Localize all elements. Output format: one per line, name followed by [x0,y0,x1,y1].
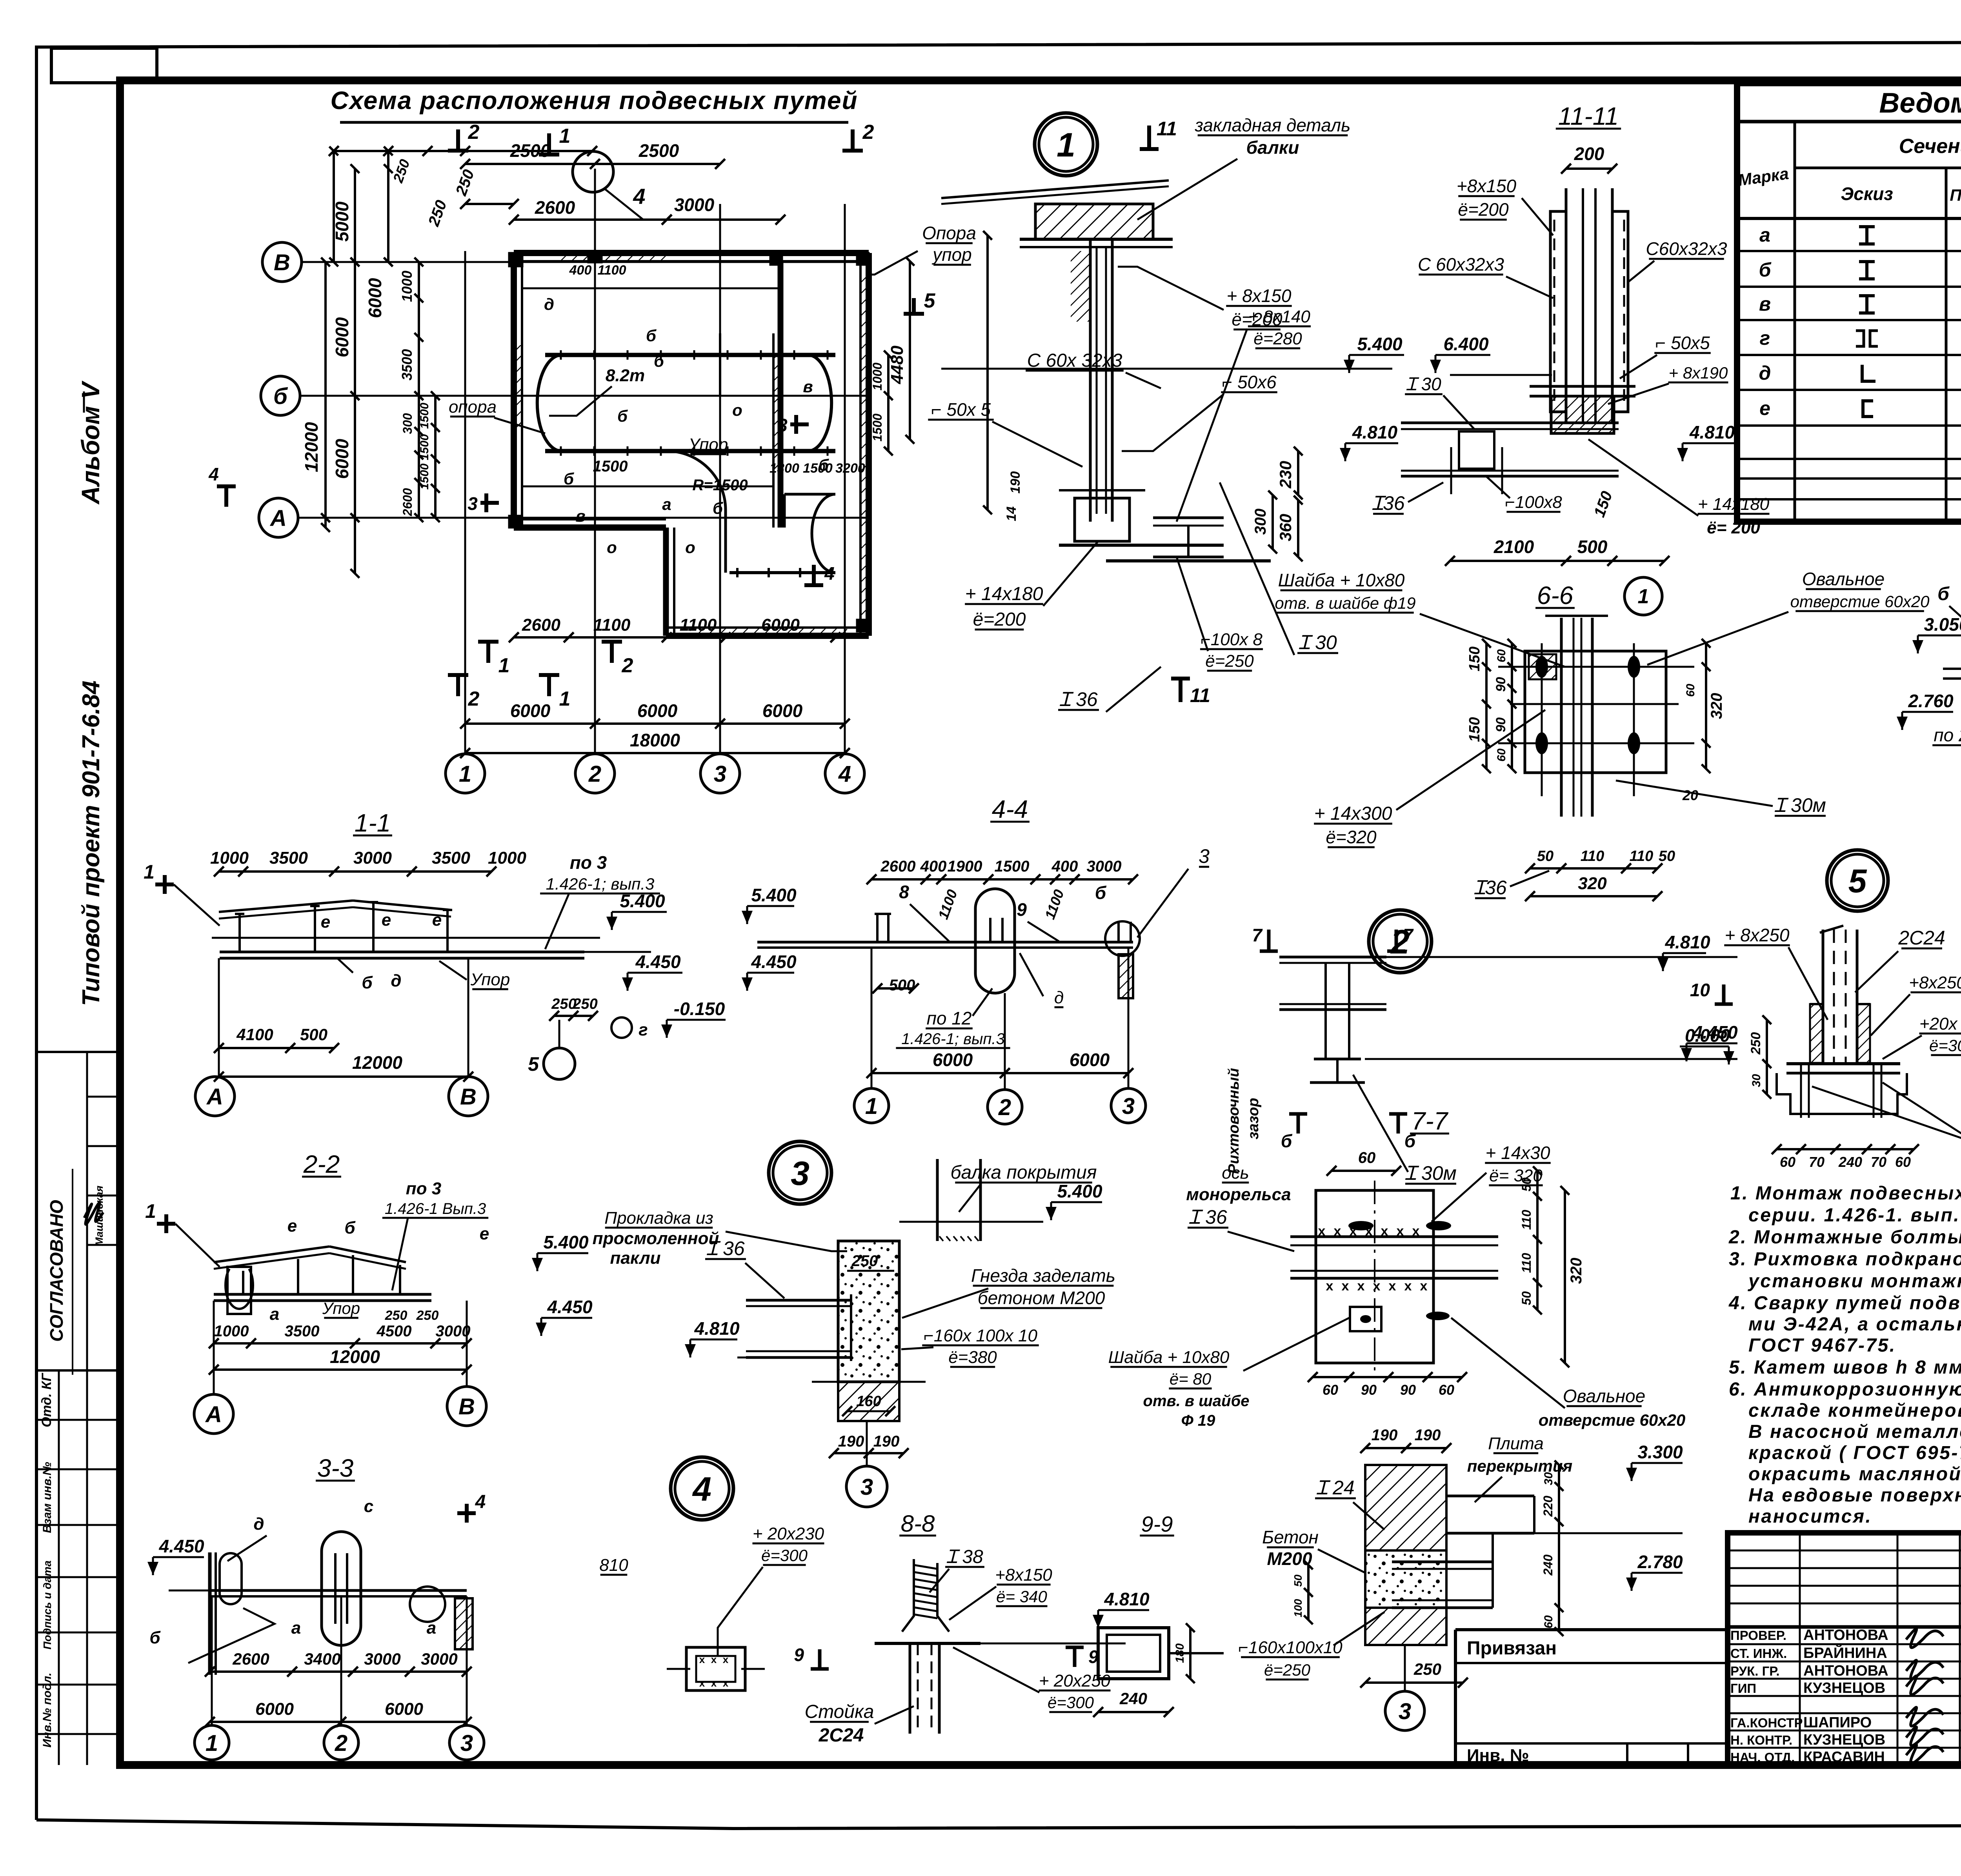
column marker 3 [770,253,782,265]
plan dim left 6000a [387,169,389,262]
9-9 dim 240 [1098,1711,1169,1713]
svg-text:6000: 6000 [933,1050,973,1070]
svg-text:ё=250: ё=250 [1205,651,1254,671]
svg-text:ё= 80: ё= 80 [1170,1370,1212,1388]
svg-text:200: 200 [1574,144,1604,164]
svg-text:складе контейнеров производи: складе контейнеров производить по таблиц… [1748,1400,1961,1421]
7-7 dims right [1536,1171,1539,1310]
plan left chain extension [354,518,356,573]
svg-text:90: 90 [1493,717,1508,732]
svg-text:Сечение: Сечение [1899,135,1961,158]
building annex bottom wall [666,633,869,639]
wall detail dim 250 [1365,1681,1463,1684]
svg-text:1: 1 [559,688,571,710]
svg-text:х: х [1389,1279,1396,1294]
3-3 level line [169,1590,388,1592]
detail 1 dim 360 [1297,500,1299,557]
svg-text:Рихтовочный: Рихтовочный [1226,1068,1242,1174]
svg-text:4.810: 4.810 [1104,1589,1150,1609]
title block outer [1728,1533,1961,1765]
7-7 beam lines [1290,1236,1498,1238]
svg-text:90: 90 [1361,1382,1377,1398]
svg-text:3.050: 3.050 [1924,614,1961,635]
plan section flag 4 bottom [812,565,816,585]
11-11 side channel left [1550,211,1566,412]
7-7 dim 60 [1332,1170,1396,1172]
svg-text:бетоном М200: бетоном М200 [978,1288,1105,1308]
svg-text:ё=320: ё=320 [1326,827,1377,847]
svg-text:3500: 3500 [432,848,470,868]
11-11 beam line [1401,422,1619,424]
plan axis circle A [259,498,298,537]
building wall hatch right [860,275,869,620]
svg-text:190: 190 [1008,471,1023,494]
svg-text:х: х [711,1654,717,1665]
svg-text:+8х250: +8х250 [1909,973,1961,992]
svg-text:ё= 340: ё= 340 [996,1587,1047,1606]
svg-text:1.426-1; вып.3: 1.426-1; вып.3 [901,1030,1005,1048]
svg-text:5.400: 5.400 [1057,1181,1102,1201]
svg-text:1: 1 [144,861,155,883]
svg-text:2: 2 [862,121,874,144]
svg-text:б: б [344,1218,356,1237]
svg-text:Овальное: Овальное [1802,569,1885,589]
svg-text:3000: 3000 [353,848,392,868]
building outer wall top [514,250,869,256]
svg-text:Инв.№ подл.: Инв.№ подл. [41,1672,54,1747]
svg-text:2: 2 [468,121,480,144]
detail3 level 5400 [1051,1201,1102,1203]
4-4 dim 500 [877,987,914,990]
svg-text:3: 3 [777,415,788,435]
monorail hangers [560,350,562,360]
3-3 small circle right [410,1587,445,1622]
svg-text:СОГЛАСОВАНО: СОГЛАСОВАНО [46,1200,67,1342]
svg-text:установки монтажных прокла: установки монтажных прокладок в зазор б … [1748,1271,1961,1292]
svg-text:Ɪ 36: Ɪ 36 [1059,688,1097,710]
4-4 right wall hatch [1119,954,1133,998]
3-3 rail beam [210,1589,467,1592]
svg-text:х: х [1373,1279,1381,1294]
detail 1 circle [1035,113,1097,176]
wall detail dims left [1307,1565,1310,1620]
svg-text:110: 110 [1519,1253,1534,1273]
svg-text:ПРОВЕР.: ПРОВЕР. [1730,1628,1786,1643]
plan annex rail [729,571,835,574]
1-1 small circle 5 [544,1048,575,1079]
svg-text:х: х [699,1654,705,1665]
svg-text:по 2: по 2 [1934,725,1961,745]
svg-text:х: х [1404,1279,1412,1294]
4-4 hangers [876,914,879,942]
svg-text:РУК. ГР.: РУК. ГР. [1730,1664,1780,1678]
svg-text:е: е [1759,397,1770,419]
svg-text:12000: 12000 [301,422,322,472]
svg-text:б: б [617,407,628,425]
svg-text:Плита: Плита [1488,1434,1544,1453]
svg-text:3: 3 [468,493,478,514]
base level 0000 [1680,1046,1729,1048]
svg-text:3000: 3000 [436,1323,471,1340]
svg-text:⌐ 50х5: ⌐ 50х5 [1655,333,1710,353]
svg-text:250: 250 [1748,1032,1763,1055]
plan annex rail hangers [736,568,739,577]
svg-text:2: 2 [998,1095,1011,1120]
plan dim right small [887,355,890,451]
svg-text:Альбом V: Альбом V [76,380,105,505]
svg-text:5.400: 5.400 [620,891,665,911]
6-6 dims left [1485,643,1488,704]
svg-text:1: 1 [559,125,571,147]
svg-text:+ 8х250: + 8х250 [1725,925,1790,945]
7-7 beam outline [1316,1190,1433,1363]
svg-text:12000: 12000 [330,1346,380,1367]
monorail 2 [545,449,835,453]
svg-text:3.300: 3.300 [1637,1442,1683,1462]
svg-text:14: 14 [1004,506,1019,521]
wall detail level 2780 [1632,1572,1683,1574]
svg-text:300: 300 [1252,509,1269,535]
detail 1 dim 230 [1297,451,1299,495]
svg-text:д: д [544,295,554,313]
4-4 axis circles [871,948,873,1088]
svg-text:е: е [287,1216,297,1236]
svg-text:а: а [662,495,671,513]
svg-text:360: 360 [1276,514,1295,541]
plan dim left small [418,262,420,396]
svg-text:а: а [1759,224,1770,246]
svg-text:х: х [1381,1224,1388,1239]
title block signatures [1906,1629,1943,1648]
svg-text:8-8: 8-8 [901,1510,935,1537]
svg-text:250: 250 [572,996,597,1012]
4-4 big loop [975,889,1015,993]
svg-text:60: 60 [1358,1149,1376,1166]
detail 1 dim vertical left [986,235,989,510]
svg-text:ё=300: ё=300 [761,1546,808,1565]
svg-text:6000: 6000 [365,278,385,318]
svg-text:б: б [362,973,373,992]
svg-text:Взам инв.№: Взам инв.№ [41,1462,54,1533]
plan dim 3000 [667,218,780,221]
svg-text:50: 50 [1659,848,1675,864]
svg-text:3: 3 [1199,845,1210,867]
detail 1 flag 11 top [1147,126,1151,149]
1-1 hangers [238,914,241,952]
svg-text:С 60х 32х3: С 60х 32х3 [1027,350,1122,371]
2-2 dims [214,1342,467,1345]
svg-text:8: 8 [899,882,909,902]
svg-text:160: 160 [856,1393,881,1410]
2-2 rail beam [214,1293,431,1296]
svg-text:1500: 1500 [418,402,431,429]
svg-text:⌐160х100х10: ⌐160х100х10 [1238,1638,1343,1657]
svg-text:3. Рихтовка подкрановых путе: 3. Рихтовка подкрановых путей по вертика… [1729,1249,1961,1270]
detail3 wall hatch below [838,1382,899,1421]
svg-text:500: 500 [1577,537,1608,557]
svg-text:R=1500: R=1500 [692,477,748,494]
svg-text:2600: 2600 [522,615,560,635]
svg-text:ГИП: ГИП [1730,1681,1756,1696]
svg-text:4. Сварку путей подвесного т: 4. Сварку путей подвесного транспорта пр… [1728,1293,1961,1314]
4-4 right circle [1105,921,1140,956]
column marker 5 [857,620,869,631]
svg-text:5. Катет швов h 8 мм , кром: 5. Катет швов h 8 мм , кроме оговоренных… [1729,1357,1961,1378]
4-4 level 400 [747,905,794,907]
svg-text:1500: 1500 [418,463,431,489]
svg-text:Схема расположения подвесных: Схема расположения подвесных путей [330,86,858,115]
plan left wall hatch [514,345,522,431]
plan dim 2600 [514,218,667,221]
svg-text:2: 2 [622,654,633,677]
svg-text:4: 4 [208,464,219,484]
svg-text:1300: 1300 [769,461,799,476]
plan annex connector [783,494,786,528]
svg-text:Типовой проект 901-7-6.84: Типовой проект 901-7-6.84 [78,681,105,1006]
detail 1 small beam I30 [1153,517,1224,519]
svg-text:1900: 1900 [948,858,982,875]
wall detail concrete pocket [1365,1550,1446,1608]
svg-text:810: 810 [599,1556,628,1575]
svg-text:150: 150 [1466,717,1483,742]
11-11 dim 200 [1566,167,1612,170]
svg-text:х: х [1326,1279,1333,1294]
plan bottom dims row2 [465,722,845,725]
3-3 level 4450 [153,1556,204,1558]
detail 1 roof beam top line [941,180,1169,198]
9-9 tube section [1098,1628,1169,1679]
svg-text:КУЗНЕЦОВ: КУЗНЕЦОВ [1803,1680,1885,1696]
6-6 column [1560,618,1563,817]
svg-text:Ведомость сечений: Ведомость сечений [1879,87,1961,119]
svg-text:ё=300: ё=300 [1048,1693,1094,1712]
plan axis line A [298,517,869,519]
svg-text:3000: 3000 [364,1650,400,1668]
svg-text:60: 60 [1542,1615,1555,1629]
svg-text:3: 3 [860,1474,873,1500]
svg-text:60: 60 [1895,1154,1911,1170]
svg-text:500: 500 [889,977,915,994]
svg-text:Привязан: Привязан [1467,1638,1557,1659]
3-3 left plate [208,1552,212,1675]
plan section flag 4 left [224,486,228,507]
plan axis circle B [262,242,302,282]
1-1 dim 12000 [219,1075,468,1078]
svg-text:50: 50 [1537,848,1554,864]
svg-text:4: 4 [692,1470,711,1508]
monorail 1 [545,353,835,357]
wall detail wall hatch lower [1365,1608,1446,1645]
svg-text:перекрытия: перекрытия [1467,1457,1573,1475]
svg-text:230: 230 [1276,461,1295,489]
wall detail slab right [1446,1495,1534,1498]
svg-text:1: 1 [498,654,510,677]
svg-text:в: в [575,507,585,525]
svg-text:Ф 19: Ф 19 [1181,1412,1216,1429]
1-1 dim 4100 500 [219,1047,334,1049]
svg-text:6000: 6000 [762,701,803,721]
6-6 dims right [1705,643,1707,769]
svg-text:отв. в шайбе ф19: отв. в шайбе ф19 [1275,594,1415,612]
svg-text:1500: 1500 [803,461,833,476]
3-3 wall right hatch [455,1598,473,1649]
svg-text:г: г [639,1020,648,1039]
svg-text:60: 60 [1322,1382,1338,1398]
svg-text:6000: 6000 [255,1699,294,1719]
11-11 level 6400 [1435,354,1490,356]
svg-text:ГОСТ 9467-75.: ГОСТ 9467-75. [1748,1335,1896,1356]
svg-text:3: 3 [1399,1699,1411,1724]
svg-text:АНТОНОВА: АНТОНОВА [1803,1663,1888,1679]
svg-text:х: х [1357,1279,1365,1294]
svg-text:⌐ 50х 5: ⌐ 50х 5 [931,399,991,420]
svg-text:БРАЙНИНА: БРАЙНИНА [1803,1644,1887,1661]
svg-text:Ɪ 30м: Ɪ 30м [1405,1162,1457,1184]
svg-text:4.810: 4.810 [1352,422,1398,442]
svg-text:просмоленной: просмоленной [593,1229,719,1248]
svg-text:1: 1 [145,1200,156,1222]
svg-text:1000: 1000 [870,362,884,390]
svg-text:краской ( ГОСТ 695-77) за 2: краской ( ГОСТ 695-77) за 2 раза. Наружн… [1748,1443,1961,1463]
svg-text:6000: 6000 [510,701,551,721]
2-2 hangers [242,1271,244,1294]
svg-text:⌐160х 100х 10: ⌐160х 100х 10 [924,1326,1037,1345]
svg-text:х: х [723,1654,729,1665]
8-8 flags 9 [818,1649,822,1669]
svg-text:3000: 3000 [1087,858,1122,875]
svg-text:о: о [685,538,695,557]
11-11 side channel right [1612,211,1628,412]
svg-text:240: 240 [1541,1554,1555,1576]
svg-text:11: 11 [1157,118,1177,140]
wall detail wall hatch upper [1365,1465,1446,1550]
svg-text:+20х 430: +20х 430 [1919,1014,1961,1034]
title block name rows [1728,1643,1961,1645]
detail3 dims 190 190 [834,1452,904,1454]
1-1 level 4450 [628,972,682,974]
svg-text:7: 7 [1252,925,1263,945]
svg-text:6000: 6000 [761,615,800,635]
svg-text:2100: 2100 [1493,537,1534,557]
svg-text:Ɪ 36: Ɪ 36 [706,1237,744,1259]
svg-text:балка покрытия: балка покрытия [950,1162,1097,1183]
plan dim row 250 [465,203,514,205]
svg-text:6000: 6000 [385,1699,423,1719]
plan dim row 2500 [465,163,720,165]
svg-text:Ɪ 30: Ɪ 30 [1406,374,1441,394]
svg-text:110: 110 [1519,1210,1534,1230]
svg-text:наносится.: наносится. [1748,1506,1872,1527]
6-6 grid lines [1498,666,1694,668]
svg-text:1000: 1000 [399,271,415,302]
top-left margin box [51,48,157,83]
svg-text:12000: 12000 [352,1052,402,1073]
svg-text:с: с [364,1497,373,1516]
svg-text:С 60х32х3: С 60х32х3 [1418,254,1504,275]
svg-text:е: е [432,910,442,930]
svg-text:Прокладка из: Прокладка из [604,1208,713,1228]
svg-text:4480: 4480 [888,346,907,384]
building inner wall [778,261,784,528]
svg-text:х: х [1365,1224,1373,1239]
plan left chain x1110 [434,396,437,518]
svg-text:ё=250: ё=250 [1264,1661,1311,1679]
svg-text:1: 1 [865,1094,878,1119]
svg-text:+8х150: +8х150 [1457,176,1517,196]
svg-text:Ɪ 30: Ɪ 30 [1299,631,1337,653]
svg-text:серии. 1.426-1. вып. 3.: серии. 1.426-1. вып. 3. [1748,1205,1961,1226]
plan axis line B [302,261,869,263]
svg-text:х: х [723,1677,729,1689]
svg-text:2600: 2600 [400,488,415,516]
svg-text:3: 3 [714,761,726,787]
svg-text:7-7: 7-7 [1412,1107,1449,1135]
11-11 level 5400 [1349,354,1404,356]
detail3 column [936,1159,939,1241]
1-1 roof line [219,901,353,912]
base anchor bolts [1800,1064,1802,1118]
svg-text:в: в [803,377,813,396]
svg-text:4.810: 4.810 [1664,932,1710,952]
svg-text:С60х32х3: С60х32х3 [1646,238,1727,259]
6-6 plate outline [1525,651,1666,773]
svg-text:220: 220 [1541,1496,1555,1517]
detail 1 level line 5400 [941,368,1392,370]
svg-text:ось: ось [1222,1163,1249,1183]
svg-text:а: а [291,1618,301,1638]
svg-text:о: о [607,538,617,557]
svg-text:Ɪ 36: Ɪ 36 [1189,1206,1227,1228]
svg-text:1100: 1100 [597,263,626,278]
column marker 1 [509,253,522,266]
svg-text:4: 4 [633,184,645,209]
svg-text:Бетон: Бетон [1262,1527,1319,1547]
detail3 concrete block [838,1241,899,1382]
svg-text:Н. КОНТР.: Н. КОНТР. [1730,1733,1792,1747]
svg-text:по 3: по 3 [570,852,607,873]
svg-text:по 12: по 12 [927,1008,972,1028]
table outer [1737,83,1961,522]
svg-text:Ɪ 30м: Ɪ 30м [1774,794,1826,816]
svg-text:х: х [1420,1279,1428,1294]
big circle 2 [1369,910,1432,973]
svg-text:Упор: Упор [322,1299,360,1317]
svg-text:0.000: 0.000 [1685,1025,1730,1046]
svg-text:3500: 3500 [269,848,308,868]
svg-text:Ɪ36: Ɪ36 [1372,492,1405,514]
plan axis column 4 [844,204,846,754]
svg-text:+ 14х180: + 14х180 [965,584,1043,604]
svg-text:ГА.КОНСТР: ГА.КОНСТР [1730,1716,1803,1730]
svg-text:1.426-1 Вып.3: 1.426-1 Вып.3 [385,1200,486,1217]
svg-text:Овальное: Овальное [1563,1386,1645,1406]
11-11 column web [1582,188,1584,424]
svg-text:110: 110 [1581,848,1604,864]
svg-text:+ 14х300: + 14х300 [1314,803,1392,824]
8-8 plate [875,1642,980,1645]
svg-text:б: б [654,352,664,370]
svg-text:1100: 1100 [593,615,631,635]
svg-text:ё=280: ё=280 [1253,329,1302,348]
svg-text:190: 190 [838,1433,864,1450]
svg-text:х: х [1397,1224,1404,1239]
table horizontal lines [1737,120,1961,124]
plan bottom flags [486,642,490,663]
11-11 lower block [1551,396,1614,433]
detail 1 rail I beam lower [1106,559,1271,562]
svg-text:В: В [274,250,290,275]
svg-text:10: 10 [1690,980,1710,1000]
